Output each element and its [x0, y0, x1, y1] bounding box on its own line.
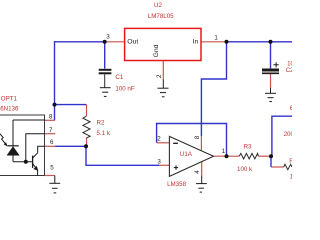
svg-text:R2: R2: [97, 120, 105, 127]
wire top rail mid (In net): [227, 41, 293, 43]
wire right edge step: [272, 116, 292, 156]
wire step to opamp plus input: [86, 146, 159, 165]
capacitor C2 electrolytic: [262, 62, 279, 73]
phototransistor (inside OPT1): [33, 146, 45, 175]
wire internal pin7 to base: [26, 134, 45, 162]
light arrow: [0, 134, 6, 144]
lead C2 bottom: [270, 74, 272, 89]
pin stub opamp output: [214, 155, 240, 157]
svg-text:6: 6: [290, 105, 292, 112]
pin stub opto pin5: [45, 175, 55, 177]
svg-text:1: 1: [290, 173, 292, 180]
ground (opamp pin4): [196, 175, 207, 192]
svg-text:Out: Out: [127, 38, 138, 45]
svg-text:OPT1: OPT1: [1, 95, 18, 102]
plus input mark: [174, 166, 178, 170]
pin stub U2 pin1 in: [201, 41, 227, 43]
svg-text:100 nF: 100 nF: [115, 85, 134, 92]
capacitor C1: [99, 70, 112, 88]
svg-text:R3: R3: [244, 144, 252, 151]
wire internal diode cathode to pin8: [13, 119, 45, 121]
ground (OPT1 pin5): [49, 176, 60, 193]
svg-text:100 k: 100 k: [237, 166, 253, 173]
resistor R2: [83, 116, 90, 138]
minus input mark: [173, 142, 178, 144]
svg-text:In: In: [193, 38, 199, 45]
svg-text:U2: U2: [154, 2, 162, 9]
node junction opamp output: [225, 154, 229, 158]
wire pin6 to R2 bottom node: [55, 145, 86, 147]
node junction opto pin8: [53, 103, 57, 107]
svg-text:2: 2: [156, 74, 163, 78]
wire C2 drop: [270, 42, 272, 69]
svg-text:6: 6: [50, 139, 54, 146]
wire below R3 junction: [270, 156, 272, 167]
ground (C1): [100, 88, 111, 97]
ground (U2): [158, 79, 169, 96]
svg-text:3: 3: [106, 34, 110, 41]
svg-text:C2: C2: [286, 67, 292, 74]
svg-text:LM78L05: LM78L05: [148, 13, 174, 20]
node junction top C1: [103, 40, 107, 44]
node junction top C2: [269, 40, 273, 44]
node junction R2 bottom: [84, 144, 88, 148]
pin stub opamp pin8: [200, 136, 202, 150]
pin stub U2 pin3 out: [105, 41, 125, 43]
ground (C2): [265, 88, 276, 102]
lead R2 bottom: [86, 138, 88, 146]
wire pin8 drop: [54, 105, 56, 121]
svg-text:4: 4: [194, 170, 201, 174]
pin stub opamp pin2: [157, 142, 170, 144]
node junction top staircase: [225, 40, 229, 44]
wire C1 drop: [104, 42, 106, 69]
pin stub opto pin7: [45, 133, 56, 135]
pin stub opto pin8: [45, 119, 55, 121]
wire feedback loop: [157, 124, 227, 157]
svg-text:8: 8: [194, 135, 201, 139]
wire staircase to opamp V+: [201, 42, 226, 136]
svg-text:U1A: U1A: [180, 151, 193, 158]
pin stub U2 pin2 gnd: [162, 61, 164, 80]
node base junction: [24, 160, 28, 164]
svg-text:2: 2: [157, 136, 161, 143]
svg-text:8: 8: [49, 113, 53, 120]
pin stub opamp pin4: [201, 162, 203, 176]
lead R2 top: [86, 105, 88, 116]
lead R3 right: [258, 155, 272, 157]
pin stub opto pin6: [45, 145, 56, 147]
svg-text:5: 5: [50, 165, 54, 172]
svg-text:1: 1: [214, 34, 218, 41]
photodiode (inside OPT1): [7, 120, 19, 162]
lead to R4: [271, 166, 284, 168]
wire to R2 top: [55, 104, 87, 106]
svg-text:C1: C1: [115, 74, 123, 81]
svg-text:LM358: LM358: [167, 181, 186, 188]
op-amp U1A LM358: [169, 136, 213, 176]
pin stub opamp pin3: [159, 164, 169, 166]
svg-text:5.1 k: 5.1 k: [97, 130, 111, 137]
node junction R3 right: [269, 154, 273, 158]
svg-text:3: 3: [157, 159, 161, 166]
svg-text:Gnd: Gnd: [153, 44, 160, 57]
resistor R4 partial at right edge: [284, 164, 292, 169]
svg-text:200 k: 200 k: [284, 131, 292, 138]
svg-text:R: R: [289, 158, 292, 165]
wire internal anode to base node: [13, 161, 33, 163]
svg-text:1: 1: [222, 148, 226, 155]
svg-text:6N136: 6N136: [0, 106, 19, 113]
voltage regulator U2 LM78L05: [125, 28, 201, 60]
wire top rail left (+5V net): [55, 41, 105, 43]
optocoupler OPT1 6N136: [0, 115, 45, 176]
resistor R3: [239, 153, 258, 159]
wire left drop to opto pin8 node: [54, 41, 56, 105]
svg-text:7: 7: [49, 127, 53, 134]
